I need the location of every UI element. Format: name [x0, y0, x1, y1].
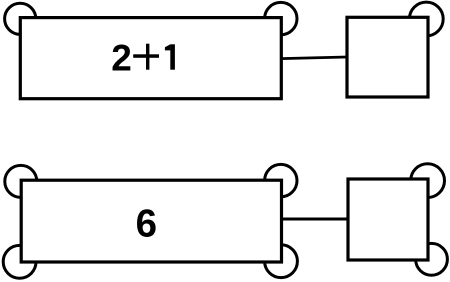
- label 2+1 : digit 1 stem: [170, 44, 175, 69]
- label 2+1 : plus sign horizontal bar: [133, 54, 159, 58]
- wheel circle bottom-right of block 6: [265, 245, 298, 278]
- label 2+1 : digit 1 flag: [165, 44, 171, 50]
- wheel circle top-right of block 6: [265, 164, 297, 196]
- wheel circle top-right of small square row 1: [409, 2, 443, 36]
- wheel circle top-right of small square row 2: [411, 164, 445, 198]
- svg-text:2: 2: [111, 38, 132, 79]
- connector bar row 1: [281, 57, 347, 59]
- wheel circle bottom-left of block 6: [3, 245, 36, 278]
- trailer square row 1: [347, 17, 428, 97]
- svg-text:6: 6: [136, 203, 157, 246]
- body rectangle 6: [21, 180, 281, 262]
- wheel circle top-left of block 6: [5, 165, 37, 197]
- connector bar row 2: [281, 218, 348, 221]
- body rectangle 2+1: [20, 18, 281, 99]
- wheel circle top-right of block 2+1: [265, 2, 297, 34]
- wheel circle bottom-right of small square row 2: [416, 243, 448, 275]
- wheel circle top-left of block 2+1: [5, 3, 36, 34]
- label 2+1 : plus sign vertical bar: [146, 44, 149, 70]
- trailer square row 2: [348, 179, 428, 260]
